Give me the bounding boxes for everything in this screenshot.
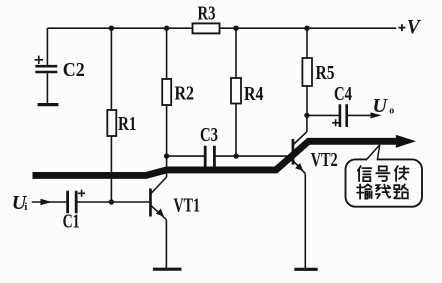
wire C1 to base node xyxy=(76,201,111,203)
wire R1 top lead xyxy=(110,28,112,110)
ground (VT1) xyxy=(153,268,182,271)
resistor R1 xyxy=(107,110,116,136)
svg-text:R2: R2 xyxy=(175,83,195,104)
capacitor C2 xyxy=(35,66,57,72)
node R2 top xyxy=(164,26,169,31)
wire C2 bottom lead xyxy=(46,73,48,103)
svg-text:U: U xyxy=(373,95,389,117)
char 输 xyxy=(357,184,372,198)
node R1 top xyxy=(109,26,114,31)
char 信 xyxy=(358,166,372,181)
resistor R2 xyxy=(162,79,171,105)
callout tail xyxy=(366,145,380,161)
svg-text:R1: R1 xyxy=(118,114,137,135)
wire C3 left xyxy=(167,155,205,157)
transistor VT2 xyxy=(292,139,295,165)
char 号 xyxy=(376,166,389,181)
wire C4 left xyxy=(307,114,339,116)
C1 plus sign xyxy=(78,190,85,197)
capacitor C4 xyxy=(340,104,347,127)
capacitor C3 xyxy=(205,146,214,167)
wire R1 bottom lead xyxy=(110,136,112,202)
ground (C2) xyxy=(38,103,59,106)
callout text 信号传 / 输线路 xyxy=(357,166,408,199)
char 线 xyxy=(376,185,391,199)
svg-text:R5: R5 xyxy=(316,63,335,84)
svg-text:C3: C3 xyxy=(200,125,218,146)
wire +V top rail xyxy=(47,27,396,29)
wire VT2 collector xyxy=(306,115,308,131)
node VT1 base xyxy=(109,199,114,204)
resistor R3 xyxy=(193,23,220,33)
svg-text:C2: C2 xyxy=(63,60,85,81)
node R4 top xyxy=(233,26,238,31)
svg-text:V: V xyxy=(407,17,422,38)
wire R4 bottom lead xyxy=(235,104,237,157)
output arrow Uo xyxy=(347,114,379,116)
wire R2 bottom lead xyxy=(166,105,168,156)
resistor R4 xyxy=(231,78,241,104)
wire VT1 collector xyxy=(166,156,168,177)
wire R5 bottom lead xyxy=(306,86,308,115)
wire R5 top lead xyxy=(306,28,308,58)
svg-text:R3: R3 xyxy=(198,4,216,25)
svg-text:o: o xyxy=(389,105,394,116)
svg-text:VT1: VT1 xyxy=(174,195,201,216)
resistor R5 xyxy=(302,58,312,86)
svg-text:C4: C4 xyxy=(334,84,352,105)
char 路 xyxy=(394,184,408,198)
input arrow xyxy=(32,201,67,203)
signal path arrowhead xyxy=(396,135,416,148)
wire C3 right to VT2 base xyxy=(214,155,291,157)
C4 plus sign xyxy=(332,119,339,126)
svg-text:R4: R4 xyxy=(244,84,264,105)
capacitor C1 xyxy=(68,191,77,213)
signal path thick line xyxy=(33,141,399,175)
node R4 bottom xyxy=(234,153,239,158)
node VT1 collector / R2 xyxy=(164,153,169,158)
node R5 top xyxy=(304,26,309,31)
transistor VT1 xyxy=(149,189,152,217)
svg-text:VT2: VT2 xyxy=(311,150,338,171)
svg-text:C1: C1 xyxy=(63,212,80,233)
ground (VT2) xyxy=(294,268,317,271)
svg-text:i: i xyxy=(24,201,27,213)
C2 plus sign xyxy=(35,56,43,64)
callout bubble xyxy=(346,159,423,206)
wire VT2 emitter xyxy=(304,173,306,268)
char 传 xyxy=(395,166,409,181)
node VT2 collector xyxy=(304,113,309,118)
wire C2 top lead xyxy=(46,28,48,65)
wire VT1 emitter xyxy=(165,219,167,268)
wire base node to VT1 xyxy=(111,201,149,203)
label +V xyxy=(398,24,405,31)
wire R2 top lead xyxy=(166,28,168,79)
wire R4 top lead xyxy=(235,28,237,78)
